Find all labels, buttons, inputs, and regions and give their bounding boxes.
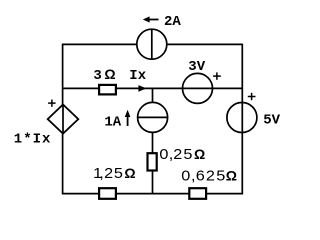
resistor R2 0,25ohm (vertical box on center branch) [148,153,157,170]
svg-text:Ω: Ω [124,165,135,181]
voltage source V2 5V (circle with axial bar) [227,103,257,133]
svg-text:1*Ix: 1*Ix [14,132,52,148]
resistor R4 0,625ohm (box on bottom wire, right) [189,188,206,199]
resistor R1 3ohm (box on middle wire) [99,85,116,95]
wire right vertical [241,44,243,194]
svg-text:3: 3 [93,68,101,84]
resistor R3 1,25ohm (box on bottom wire, left) [99,188,116,199]
svg-text:3V: 3V [188,59,205,75]
wire middle horizontal [63,87,243,89]
svg-text:Ix: Ix [129,68,146,84]
arrow 1A current direction (points up) [125,110,131,126]
wire top (node between 1*Ix source top and 2A source) [63,43,243,45]
arrow 2A current direction (points left) [143,16,159,22]
current source I1 2A (circle with perpendicular bar) [137,29,167,59]
voltage source V1 3V (circle with axial bar) [183,73,213,103]
wire center vertical branch [152,88,154,193]
arrow Ix current direction (points right) [138,85,146,92]
current source I2 1A (circle with perpendicular bar) [138,102,168,132]
svg-text:2A: 2A [164,14,181,30]
plus sign of dependent source [48,100,56,107]
svg-text:0,25: 0,25 [159,147,192,163]
svg-text:Ω: Ω [104,66,115,82]
svg-text:0,625: 0,625 [181,168,225,184]
dependent voltage source E1 1*Ix (diamond) [48,105,79,134]
plus sign of 3V [213,72,221,79]
wire left vertical [62,44,64,194]
svg-text:1A: 1A [104,114,121,130]
svg-text:1,25: 1,25 [93,166,123,182]
plus sign of 5V [248,93,256,100]
wire bottom [62,193,243,195]
svg-text:5V: 5V [263,113,280,129]
svg-text:Ω: Ω [194,146,205,162]
svg-text:Ω: Ω [226,168,237,184]
